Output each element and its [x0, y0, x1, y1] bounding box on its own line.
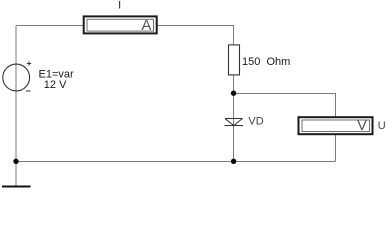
svg-text:U: U	[378, 120, 386, 132]
svg-text:V: V	[357, 117, 367, 134]
svg-text:150 Ohm: 150 Ohm	[242, 56, 290, 68]
svg-text:VD: VD	[248, 116, 263, 128]
svg-text:A: A	[141, 17, 151, 34]
svg-text:I: I	[118, 0, 121, 12]
svg-text:12 V: 12 V	[44, 79, 67, 91]
